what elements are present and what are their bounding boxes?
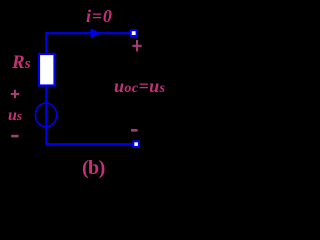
label i=0	[86, 6, 113, 27]
label Rs	[12, 52, 31, 74]
plus sign near source	[11, 90, 19, 98]
label us (source)	[8, 107, 22, 125]
voltage source us circle	[35, 103, 56, 127]
minus sign at terminal	[131, 129, 138, 132]
caption (b)	[82, 157, 105, 180]
wire top horizontal	[45, 32, 132, 34]
minus sign near source	[11, 135, 18, 138]
wire bottom horizontal	[45, 143, 134, 145]
terminal node - (bottom right square)	[133, 141, 139, 147]
plus sign at terminal	[132, 40, 141, 51]
resistor Rs body	[39, 54, 55, 86]
wire left vertical	[45, 32, 47, 145]
terminal node + (top right square)	[131, 30, 137, 36]
current arrow on top wire	[91, 28, 102, 38]
label uoc=us	[114, 76, 165, 97]
